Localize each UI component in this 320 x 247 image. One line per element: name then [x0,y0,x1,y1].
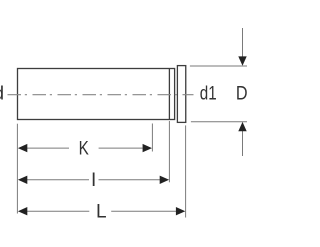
svg-text:d1: d1 [200,84,217,105]
L left arrow [18,207,27,215]
I right arrow [160,176,169,184]
svg-text:I: I [91,170,96,191]
svg-text:K: K [79,139,89,160]
D up arrow [238,122,246,131]
L extension line [185,125,187,217]
D down arrow [238,56,246,65]
left extension line [16,124,18,214]
dimension D lower line [242,131,244,156]
groove line [168,69,170,120]
end bead cap [177,66,185,123]
svg-text:D: D [236,84,247,105]
I extension line [168,121,170,182]
K right arrow [143,144,152,152]
centerline [8,94,194,96]
svg-text:d: d [0,84,4,105]
I left arrow [18,176,27,184]
L right arrow [176,207,185,215]
dimension L line [26,210,89,212]
dimension D upper line [242,28,244,57]
pipe body [18,69,175,120]
svg-text:L: L [96,202,107,223]
dimension K line [26,147,69,149]
K extension line [151,124,153,152]
D bottom extension line [191,121,247,123]
K left arrow [18,144,27,152]
dimension I line [26,179,89,181]
D top extension line [190,65,247,67]
